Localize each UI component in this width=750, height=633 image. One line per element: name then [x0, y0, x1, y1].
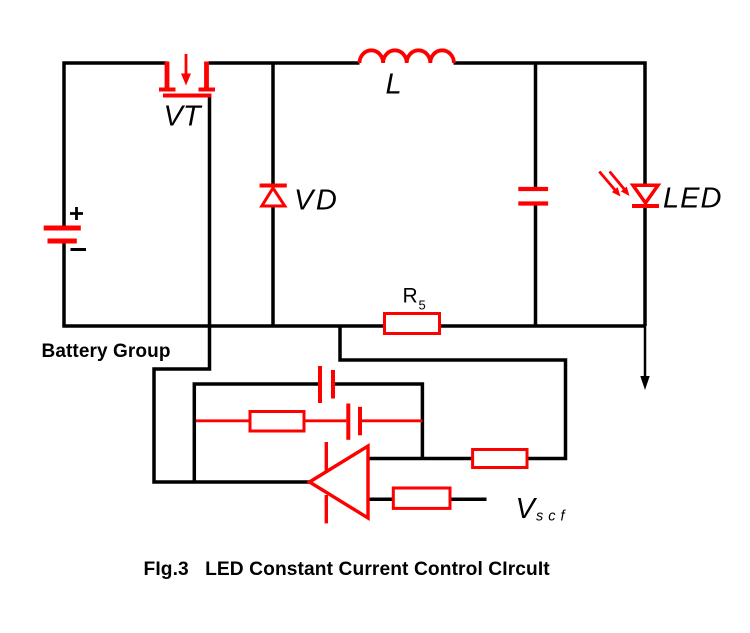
svg-text:Battery Group: Battery Group — [42, 341, 171, 362]
Vscf input resistor body — [393, 488, 450, 508]
inductor L coils — [360, 50, 454, 63]
wire feedback box right side — [334, 384, 422, 459]
diode VD triangle — [262, 188, 285, 206]
op-amp input stub top — [325, 442, 328, 471]
svg-text:5: 5 — [419, 298, 426, 313]
wire VD branch upper — [271, 63, 275, 186]
wire bottom bus right of R5 — [440, 324, 646, 328]
LED arrowhead 1 — [612, 187, 621, 196]
svg-text:scf: scf — [536, 509, 570, 525]
output arrowhead — [640, 376, 649, 390]
svg-text:LED: LED — [663, 183, 722, 215]
capacitor C bottom plate — [518, 201, 548, 205]
svg-text:R: R — [403, 285, 418, 308]
transistor VT right terminal — [204, 62, 209, 88]
transistor VT gate bar — [163, 94, 212, 98]
LED arrow 1 — [599, 172, 615, 191]
transistor VT left terminal — [165, 62, 170, 88]
op-amp input stub bottom — [325, 495, 328, 523]
resistor R5 body — [385, 314, 440, 334]
LED arrow 2 — [610, 172, 625, 190]
transistor VT right terminal bar — [199, 88, 216, 92]
wire resistor to Vscf — [450, 498, 487, 502]
op-amp U1 triangle — [310, 446, 369, 518]
diode VD cathode bar — [260, 184, 287, 188]
wire op-amp noninverting input to resistor — [368, 498, 393, 502]
sense feedback resistor body — [473, 450, 527, 468]
output arrow line — [644, 326, 647, 378]
transistor VT left terminal bar — [159, 88, 176, 92]
capacitor C top plate — [518, 187, 548, 191]
svg-text:V: V — [516, 493, 538, 525]
wire LED cathode to bus — [643, 206, 647, 326]
svg-text:L: L — [386, 69, 402, 101]
wire capacitor branch lower — [534, 204, 538, 327]
wire current-sense tap from bus to right feedback resistor — [340, 326, 566, 459]
battery positive plate — [44, 226, 81, 231]
wire feedback box left side — [194, 384, 318, 482]
battery minus sign — [71, 248, 87, 251]
red wire feedback middle — [304, 419, 346, 422]
red wire feedback left — [196, 419, 250, 422]
battery plus sign — [70, 207, 83, 220]
feedback capacitor C1 right plate — [331, 370, 335, 399]
svg-text:VT: VT — [164, 101, 203, 133]
wire VT gate lead stepping down to op-amp output — [154, 97, 310, 482]
red wire feedback right — [362, 419, 422, 422]
feedback capacitor C1 left plate — [318, 366, 322, 403]
battery negative plate — [48, 239, 77, 244]
LED cathode bar — [632, 204, 659, 208]
wire VT source to inductor — [209, 61, 360, 65]
wire bottom bus left of R5 — [62, 324, 384, 328]
feedback capacitor C2 right plate — [358, 407, 362, 436]
wire capacitor branch upper — [534, 63, 538, 187]
wire sense resistor to op-amp inverting input — [368, 457, 473, 461]
LED triangle — [633, 185, 658, 203]
transistor VT arrow line — [185, 54, 188, 76]
transistor VT arrowhead — [181, 74, 191, 86]
LED arrowhead 2 — [621, 187, 630, 196]
wire top-left corner (battery + to VT drain) — [64, 63, 167, 226]
feedback capacitor C2 left plate — [346, 404, 350, 440]
feedback resistor body — [250, 412, 304, 432]
wire inductor to top-right corner and LED anode — [454, 63, 646, 185]
wire battery negative lead — [62, 243, 66, 326]
svg-text:FIg.3 LED Constant Current C: FIg.3 LED Constant Current Control CIrcu… — [144, 559, 551, 580]
svg-text:VD: VD — [294, 185, 339, 217]
wire VD branch lower — [271, 207, 275, 327]
